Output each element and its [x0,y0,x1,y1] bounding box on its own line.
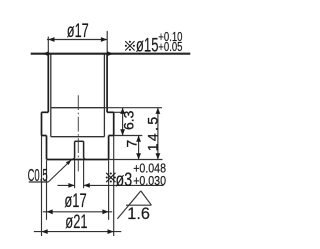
svg-text:ø3: ø3 [116,169,133,191]
svg-text:6.3: 6.3 [120,110,136,130]
svg-text:+0.05: +0.05 [158,41,182,55]
svg-text:+0.030: +0.030 [133,173,166,188]
svg-text:7: 7 [124,139,140,147]
svg-text:ø17: ø17 [64,190,86,211]
svg-text:C0.5: C0.5 [28,165,48,185]
svg-text:14.5: 14.5 [144,114,160,151]
svg-text:1.6: 1.6 [127,204,150,223]
svg-text:ø21: ø21 [65,212,87,233]
svg-text:ø17: ø17 [67,20,89,41]
svg-text:ø15: ø15 [136,35,159,56]
